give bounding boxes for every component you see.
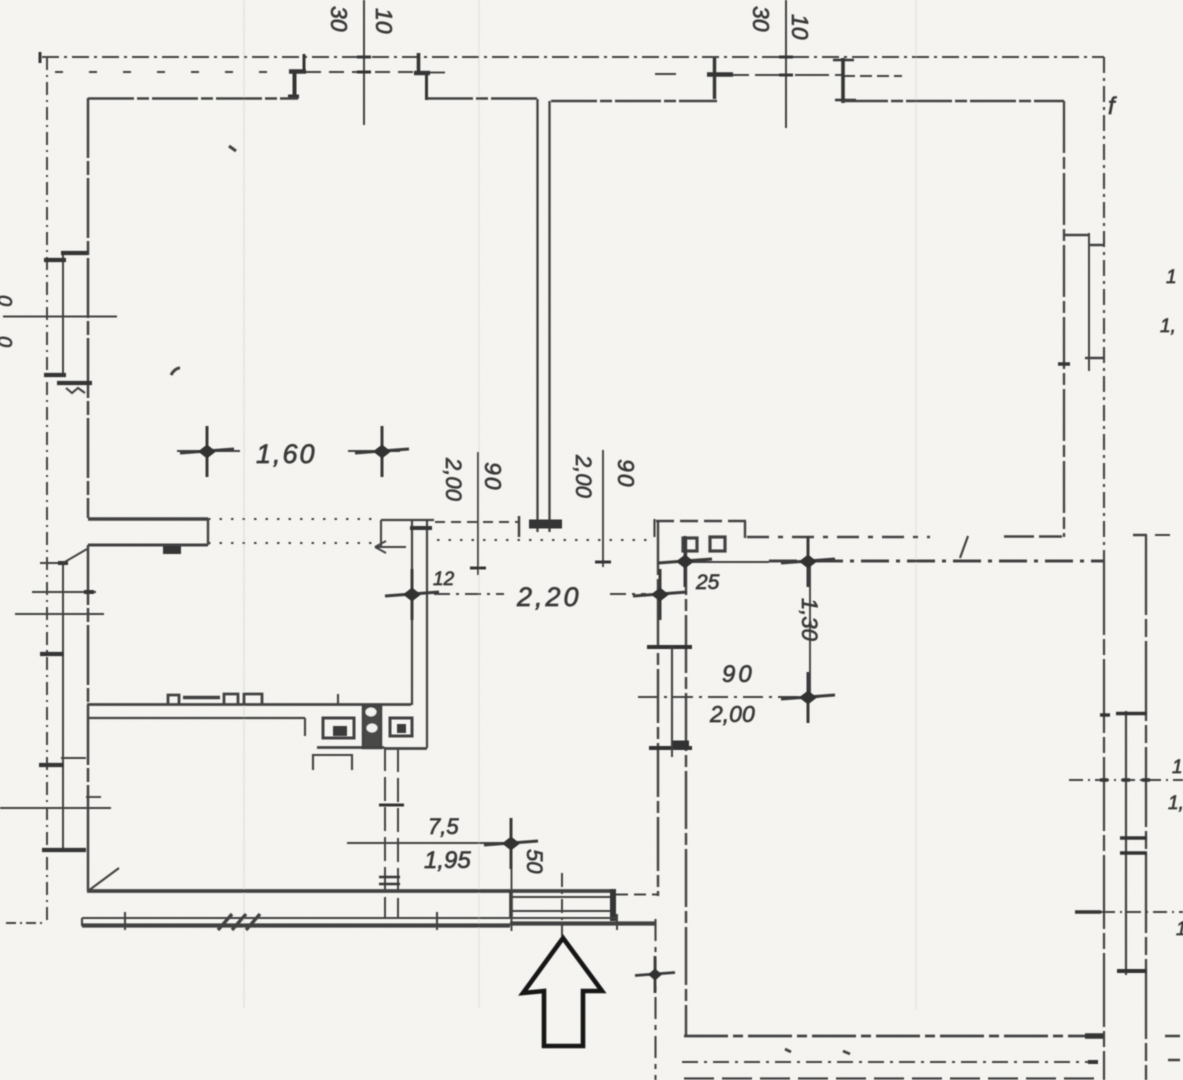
svg-text:1,60: 1,60 [256, 439, 317, 469]
svg-text:90: 90 [613, 459, 639, 489]
svg-text:1,95: 1,95 [424, 847, 471, 874]
svg-text:30: 30 [748, 6, 774, 32]
svg-text:1: 1 [1166, 267, 1177, 288]
svg-text:0: 0 [0, 295, 15, 306]
svg-text:10: 10 [371, 8, 397, 34]
svg-text:2,20: 2,20 [516, 582, 582, 612]
svg-text:7,5: 7,5 [428, 814, 459, 839]
svg-text:12: 12 [433, 569, 455, 590]
svg-text:90: 90 [480, 462, 506, 492]
svg-text:50: 50 [522, 849, 547, 874]
svg-text:0: 0 [0, 336, 15, 347]
svg-text:30: 30 [326, 6, 352, 32]
svg-text:1,: 1, [1168, 793, 1183, 814]
svg-text:1: 1 [1176, 919, 1183, 940]
svg-text:1,: 1, [1160, 316, 1176, 337]
svg-text:1: 1 [1172, 757, 1183, 778]
svg-text:1,30: 1,30 [797, 598, 822, 642]
svg-text:90: 90 [722, 661, 755, 688]
svg-text:25: 25 [695, 571, 720, 594]
svg-text:10: 10 [787, 14, 813, 40]
svg-text:2,00: 2,00 [571, 454, 596, 499]
svg-text:2,00: 2,00 [709, 701, 755, 727]
svg-text:2,00: 2,00 [441, 457, 466, 502]
